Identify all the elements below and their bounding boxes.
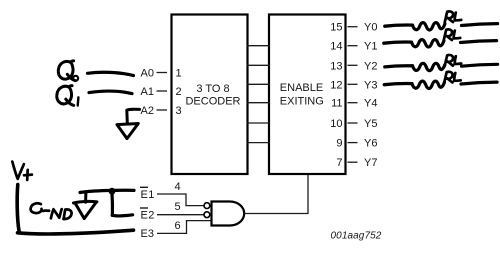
svg-text:10: 10 (330, 118, 342, 130)
inverter bubble E2 input (204, 212, 210, 218)
svg-text:001aag752: 001aag752 (331, 231, 382, 242)
wire Y0 (348, 26, 358, 28)
svg-text:11: 11 (331, 98, 342, 110)
svg-text:A2: A2 (141, 105, 154, 117)
svg-text:Y3: Y3 (364, 79, 377, 91)
wire Y2 (348, 64, 358, 66)
wire Y5 (348, 122, 358, 124)
svg-text:Y1: Y1 (364, 41, 377, 53)
svg-text:Y0: Y0 (364, 22, 377, 34)
annotation V+ (handwritten) (12, 162, 32, 180)
wire hand A0 (88, 72, 134, 75)
IC U2 enable/exiting box (269, 15, 346, 175)
wire hand ground rail to E3 (18, 230, 134, 234)
wire hand to E2 (112, 215, 132, 216)
annotation G-ND (handwritten) (31, 203, 72, 219)
overline E2 (140, 207, 148, 209)
wire A2 (157, 109, 168, 111)
svg-text:13: 13 (330, 60, 342, 72)
wire A1 (157, 90, 168, 92)
resistor label RL on Y2 (445, 55, 462, 66)
svg-text:A1: A1 (141, 86, 154, 98)
svg-text:Y7: Y7 (364, 157, 377, 169)
bus wire 4 (247, 102, 270, 104)
resistor RL on Y1 (handwritten) (384, 40, 497, 47)
gate U3 AND (inverted inputs) (212, 202, 245, 226)
svg-text:15: 15 (330, 22, 342, 34)
svg-text:DECODER: DECODER (185, 96, 240, 108)
svg-text:Y5: Y5 (364, 118, 377, 130)
wire Y4 (348, 102, 358, 104)
wire hand to E1 (80, 190, 134, 192)
resistor label RL on Y1 (444, 29, 461, 40)
wire gate output to U2 (244, 175, 308, 214)
inverter bubble E1 input (204, 203, 210, 209)
ground symbol hand (triangle) (74, 192, 97, 219)
bus wire 3 (247, 83, 270, 85)
svg-text:E1: E1 (141, 189, 155, 201)
bus wire 2 (247, 64, 270, 66)
annotation Q0 (handwritten) (58, 61, 78, 81)
svg-text:6: 6 (174, 220, 180, 232)
resistor RL on Y0 (handwritten) (385, 23, 498, 30)
svg-text:Y4: Y4 (364, 98, 377, 110)
svg-text:3: 3 (176, 105, 182, 117)
annotation Q1 (handwritten) (57, 86, 79, 106)
wire E2 (157, 214, 204, 216)
svg-text:7: 7 (336, 157, 342, 169)
svg-text:14: 14 (330, 41, 342, 53)
svg-text:Y6: Y6 (364, 138, 377, 150)
resistor RL on Y3 (handwritten) (384, 81, 497, 88)
svg-text:4: 4 (174, 181, 180, 193)
svg-text:EXITING: EXITING (280, 96, 324, 108)
wire E1 (157, 194, 204, 206)
wire Y6 (348, 142, 358, 144)
bus wire 5 (247, 122, 270, 124)
svg-text:1: 1 (176, 68, 182, 80)
svg-text:E2: E2 (141, 210, 155, 222)
wire hand A1 (89, 91, 132, 93)
wire Y3 (348, 83, 358, 85)
wire E3 (157, 221, 211, 234)
svg-text:E3: E3 (141, 228, 154, 240)
svg-text:12: 12 (330, 79, 342, 91)
svg-text:ENABLE: ENABLE (280, 82, 323, 94)
overline E1 (140, 186, 148, 188)
resistor label RL on Y3 (444, 72, 461, 83)
svg-text:5: 5 (174, 201, 180, 213)
IC U1 3-to-8 decoder box (172, 15, 248, 175)
wire hand V+ rail vertical (17, 185, 19, 232)
wire A0 (157, 72, 168, 74)
svg-text:Y2: Y2 (364, 60, 377, 72)
svg-text:A0: A0 (141, 68, 154, 80)
junction dot (109, 188, 116, 195)
svg-text:3 TO 8: 3 TO 8 (196, 83, 229, 95)
ground arrow at A2 (handwritten) (117, 109, 140, 138)
svg-text:2: 2 (176, 86, 182, 98)
bus wire 1 (247, 45, 270, 47)
resistor RL on Y2 (handwritten) (385, 63, 498, 70)
wire Y1 (348, 45, 358, 47)
wire hand junction down (110, 192, 114, 216)
wire Y7 (348, 161, 358, 163)
svg-text:9: 9 (336, 138, 342, 150)
resistor label RL on Y0 (445, 11, 462, 22)
bus wire 6 (247, 142, 270, 144)
